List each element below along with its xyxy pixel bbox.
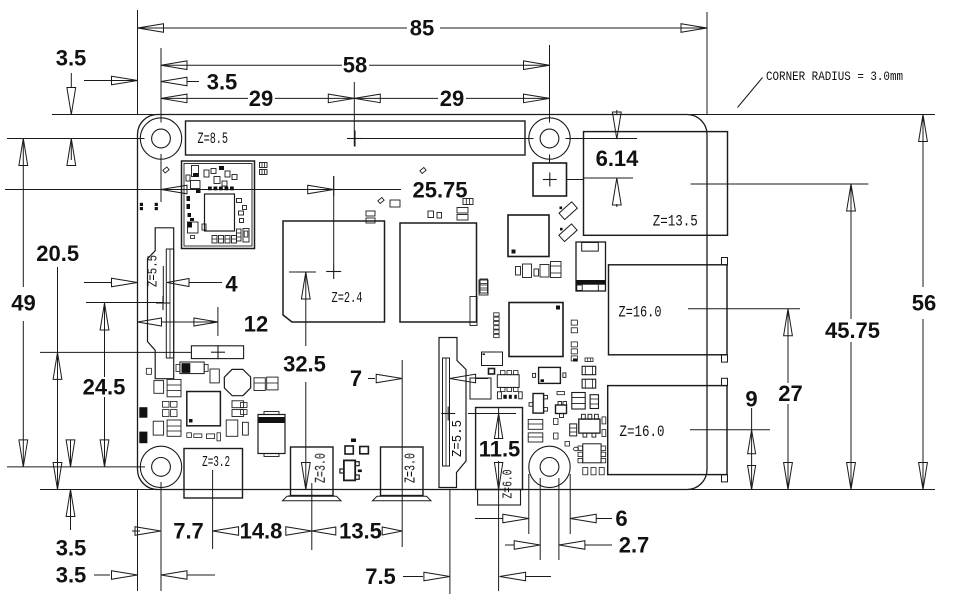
svg-text:29: 29	[249, 86, 273, 111]
svg-text:12: 12	[244, 312, 268, 337]
svg-text:24.5: 24.5	[83, 375, 126, 400]
svg-text:CORNER RADIUS = 3.0mm: CORNER RADIUS = 3.0mm	[766, 69, 903, 84]
svg-text:45.75: 45.75	[825, 318, 880, 343]
svg-text:14.8: 14.8	[240, 519, 283, 544]
svg-text:85: 85	[410, 16, 434, 41]
svg-text:7.7: 7.7	[173, 519, 204, 544]
svg-text:9: 9	[745, 387, 757, 412]
svg-text:Z=16.0: Z=16.0	[620, 423, 665, 441]
svg-text:2.7: 2.7	[619, 533, 650, 558]
svg-text:6: 6	[615, 506, 627, 531]
svg-text:Z=6.0: Z=6.0	[501, 470, 517, 499]
svg-text:6.14: 6.14	[596, 146, 640, 171]
svg-text:49: 49	[11, 291, 35, 316]
svg-text:3.5: 3.5	[56, 563, 87, 588]
svg-text:Z=5.5: Z=5.5	[146, 255, 162, 287]
svg-text:7: 7	[350, 366, 362, 391]
svg-text:3.5: 3.5	[56, 46, 87, 71]
svg-text:25.75: 25.75	[412, 178, 467, 203]
svg-text:29: 29	[440, 86, 464, 111]
svg-text:Z=3.2: Z=3.2	[202, 454, 230, 471]
svg-text:Z=2.4: Z=2.4	[332, 290, 363, 307]
svg-text:27: 27	[778, 381, 802, 406]
svg-text:4: 4	[225, 272, 238, 297]
svg-text:Z=13.5: Z=13.5	[653, 212, 698, 230]
svg-text:58: 58	[343, 53, 367, 78]
svg-text:3.5: 3.5	[207, 70, 238, 95]
svg-text:32.5: 32.5	[283, 352, 326, 377]
svg-text:Z=16.0: Z=16.0	[619, 304, 662, 322]
svg-text:56: 56	[912, 291, 936, 316]
svg-text:13.5: 13.5	[339, 519, 382, 544]
svg-text:11.5: 11.5	[479, 437, 521, 462]
svg-text:Z=8.5: Z=8.5	[198, 130, 229, 148]
svg-text:3.5: 3.5	[56, 536, 87, 561]
svg-text:Z=3.0: Z=3.0	[403, 453, 420, 483]
svg-text:20.5: 20.5	[36, 241, 79, 266]
svg-text:7.5: 7.5	[365, 564, 396, 589]
svg-text:Z=5.5: Z=5.5	[450, 420, 466, 457]
svg-text:Z=3.0: Z=3.0	[313, 453, 330, 483]
